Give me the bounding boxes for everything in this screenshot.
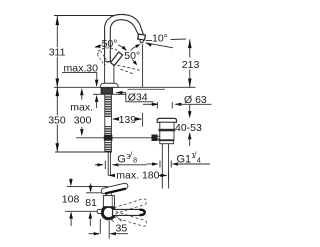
label max. 300 [70, 101, 93, 126]
svg-text:4: 4 [197, 156, 201, 165]
mounting nut below deck [101, 88, 113, 94]
threaded shank [105, 94, 112, 151]
svg-text:139: 139 [119, 114, 137, 126]
aerator outlet [138, 34, 146, 40]
drain body [160, 122, 174, 140]
label 213 [181, 58, 200, 71]
svg-text:50°: 50° [102, 38, 118, 50]
label 35 [114, 222, 130, 235]
deck bottom line [93, 93, 105, 95]
dimension G3/8 [95, 164, 103, 166]
dimension O63 [143, 103, 158, 105]
spout tube solid (top view) [113, 209, 145, 215]
dimension 213 line [189, 39, 191, 57]
deck top line [54, 86, 196, 88]
line under shank (350 bottom reference) [55, 151, 112, 153]
lever neck (top view) [106, 194, 108, 196]
label max. 180 [116, 169, 159, 181]
top view reference line lever back [67, 185, 108, 187]
spout dashed lower position [114, 212, 148, 227]
svg-text:350: 350 [48, 115, 66, 127]
label 10 deg [152, 32, 168, 44]
svg-text:10°: 10° [152, 32, 168, 44]
svg-text:Ø34: Ø34 [128, 91, 148, 103]
spout dashed upper position [114, 198, 148, 213]
label 50 deg handle [102, 38, 118, 50]
svg-text:8: 8 [133, 156, 137, 165]
svg-text:max.: max. [70, 101, 93, 113]
spout dashed swing stub [112, 216, 126, 230]
label 40-53 [175, 122, 202, 134]
dimension 35 [99, 219, 101, 234]
dimension 108 arrows [69, 179, 73, 186]
rod coupler on shank [104, 135, 113, 141]
svg-text:81: 81 [85, 197, 97, 209]
50 deg handle arc arrows [95, 45, 102, 47]
label 350 [48, 115, 66, 127]
svg-text:Ø 63: Ø 63 [184, 94, 207, 106]
drain tailpipe [161, 144, 163, 189]
swivel base circle (top view) [103, 207, 115, 219]
svg-text:G1: G1 [177, 153, 192, 165]
lever dashed alternate position [97, 52, 108, 66]
label G3/8 [117, 150, 137, 165]
spout tube (front view) [105, 14, 144, 62]
svg-text:35: 35 [116, 222, 128, 234]
outlet tip [140, 40, 144, 43]
supply hoses below shank [107, 152, 109, 176]
label 81 [85, 197, 97, 209]
svg-text:300: 300 [74, 114, 92, 126]
label max.30 with leader [64, 62, 99, 74]
dimension max.300 arrows [80, 88, 84, 95]
faucet body column [105, 62, 114, 84]
svg-text:40-53: 40-53 [175, 122, 202, 134]
label 50 deg spout [124, 50, 140, 62]
label 311 [48, 47, 66, 59]
dimension 40-53 [189, 104, 191, 112]
dashed outlet alternate direction [118, 65, 142, 70]
handle swing dashed arc [98, 48, 118, 51]
lever (top view) [101, 183, 129, 195]
side nub (top view) [97, 209, 101, 213]
label O34 with bracket [115, 91, 122, 94]
dimension 350 line [56, 87, 60, 152]
top view spout axis line [65, 210, 101, 212]
svg-text:311: 311 [49, 47, 66, 59]
dimension G1 1/4 [147, 163, 158, 165]
body (top view) [103, 196, 114, 207]
svg-text:213: 213 [182, 59, 200, 71]
drain locknut [159, 129, 176, 132]
dimension max. 180 [108, 174, 115, 177]
label 108 [62, 194, 80, 206]
drain body bottom [158, 139, 175, 140]
pop-up linkage box [152, 135, 158, 142]
svg-text:max. 180: max. 180 [116, 169, 159, 181]
escutcheon base [100, 83, 118, 87]
max.30 arrows at deck [95, 80, 99, 87]
dimension 81 arrows [89, 186, 93, 193]
pop-up rod [76, 137, 152, 139]
wire top reference line (spout apex level) [54, 15, 115, 17]
drain flange [157, 118, 176, 122]
label 139 [119, 114, 137, 126]
label G1 1/4 [177, 150, 201, 165]
label O63 [184, 94, 207, 106]
10 deg reference line [146, 39, 152, 41]
50 deg spout arrows [131, 46, 137, 50]
top view reference line lever front [86, 192, 103, 194]
lever solid (front view) [111, 52, 123, 66]
10 deg outlet axis line [146, 43, 174, 48]
projection line from outlet to deck [142, 44, 144, 87]
svg-text:G: G [117, 153, 126, 165]
svg-text:108: 108 [62, 194, 80, 206]
dimension 139 [113, 118, 118, 120]
dimension 311 line [56, 16, 60, 87]
